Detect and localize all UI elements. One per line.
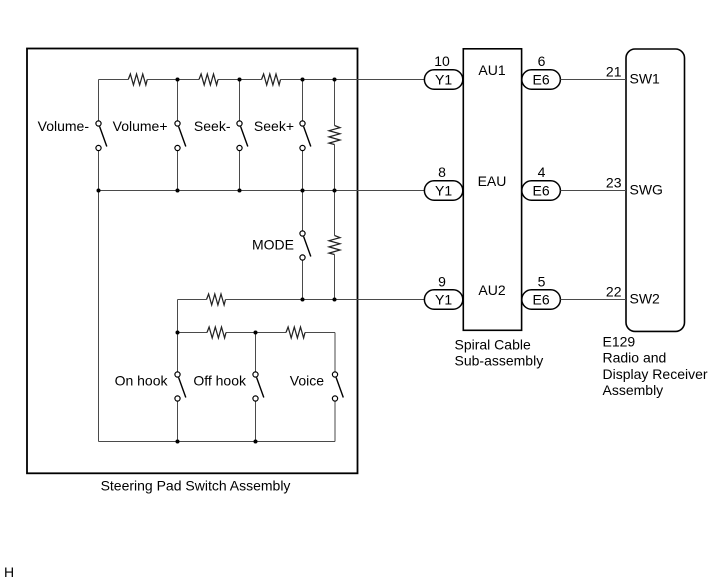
component box: E129 Radio and Display Receiver Assembly (626, 49, 685, 331)
switch Voice (332, 372, 343, 401)
resistor (Volume+ series, row1 middle) (199, 74, 218, 85)
wire vertical x=334.5 lower (ladder resistor branch 2) (334, 191, 336, 300)
wire vertical x=255.5 (Off hook branch) (255, 333, 257, 442)
junction dots line C (176, 440, 258, 444)
svg-text:Assembly: Assembly (603, 382, 664, 398)
svg-text:SW2: SW2 (630, 291, 661, 307)
svg-text:10: 10 (434, 53, 450, 69)
svg-text:AU1: AU1 (478, 62, 505, 78)
connector pill E6 pin 5 (522, 290, 561, 309)
switch Volume- (96, 121, 107, 151)
connector box: Spiral Cable Sub-assembly (463, 49, 521, 331)
svg-text:Radio and: Radio and (603, 350, 667, 366)
wire line B (hook switch feed, y=332.5) (178, 332, 336, 334)
wire row1 net AU1/SW1 (y=79.5) (99, 79, 425, 81)
svg-text:E6: E6 (533, 292, 550, 308)
connector pill Y1 pin 9 (424, 290, 462, 309)
switch Seek+ (300, 121, 311, 151)
svg-text:AU2: AU2 (478, 282, 505, 298)
wire E6 pin5 to E129 pin22 (560, 299, 626, 301)
outer box: Steering Pad Switch Assembly (27, 49, 358, 474)
svg-text:Y1: Y1 (435, 292, 452, 308)
svg-text:H: H (4, 564, 14, 580)
connector pill E6 pin 4 (522, 181, 561, 200)
svg-text:EAU: EAU (478, 173, 507, 189)
resistor (vertical, row2-row3) (329, 236, 340, 255)
svg-text:9: 9 (438, 274, 446, 290)
resistor (Volume- series, row1 left) (128, 74, 147, 85)
switch MODE (300, 231, 311, 260)
svg-text:Seek+: Seek+ (254, 118, 294, 134)
junction dots line B (176, 331, 258, 335)
svg-text:6: 6 (538, 53, 546, 69)
wire E6 pin4 to E129 pin23 (560, 190, 626, 192)
wire row3 net AU2/SW2 (y=299.5) (178, 299, 425, 301)
svg-text:Steering Pad Switch Assembly: Steering Pad Switch Assembly (101, 478, 291, 494)
wire E6 pin6 to E129 pin21 (560, 79, 626, 81)
switch Off hook (253, 372, 264, 401)
svg-text:Y1: Y1 (435, 183, 452, 199)
svg-text:Off hook: Off hook (193, 373, 247, 389)
svg-text:Y1: Y1 (435, 72, 452, 88)
svg-text:21: 21 (606, 64, 622, 80)
svg-text:23: 23 (606, 175, 622, 191)
svg-text:8: 8 (438, 164, 446, 180)
svg-text:SWG: SWG (630, 182, 663, 198)
resistor (Seek- series, row1 right) (262, 74, 281, 85)
svg-text:E6: E6 (533, 72, 550, 88)
connector pill E6 pin 6 (522, 70, 561, 89)
wire line C (switch common return, y=441.5) (99, 441, 336, 443)
wire vertical x=334.5 upper (ladder resistor branch) (334, 80, 336, 191)
resistor (Voice series, line B right) (286, 327, 305, 338)
connector pill Y1 pin 8 (424, 181, 462, 200)
resistor (vertical, row1-row2) (329, 126, 340, 145)
wire vertical x=98 (Volume- branch) (98, 80, 100, 442)
wire vertical x=177.5 (Volume+ branch) (177, 80, 179, 191)
caption: E129 Radio and Display Receiver Assembly (603, 334, 708, 399)
svg-text:Voice: Voice (290, 373, 324, 389)
resistor (row3 series) (207, 294, 226, 305)
svg-text:On hook: On hook (115, 373, 169, 389)
svg-text:22: 22 (606, 284, 622, 300)
connector pill Y1 pin 10 (424, 70, 462, 89)
svg-text:Volume-: Volume- (38, 118, 90, 134)
svg-text:Display Receiver: Display Receiver (603, 366, 708, 382)
svg-text:SW1: SW1 (630, 71, 661, 87)
svg-text:E6: E6 (533, 183, 550, 199)
svg-text:4: 4 (538, 164, 546, 180)
switch On hook (175, 372, 186, 401)
wire vertical x=302.5 (Seek+ branch) (302, 80, 304, 191)
wire vertical x=177.5 (On hook branch) (177, 300, 179, 442)
svg-text:E129: E129 (603, 334, 636, 350)
junction dots row2 (97, 189, 337, 193)
wire vertical x=239.5 (Seek- branch) (239, 80, 241, 191)
resistor (On/Off hook series, line B left) (207, 327, 226, 338)
junction dots row3 (301, 298, 337, 302)
wire vertical x=335.5 (Voice branch) (334, 333, 336, 442)
junction dots row1 (176, 78, 337, 82)
svg-text:Volume+: Volume+ (113, 118, 168, 134)
svg-text:Spiral Cable: Spiral Cable (455, 337, 531, 353)
caption: Spiral Cable Sub-assembly (455, 337, 544, 369)
wire vertical x=302.5 (MODE branch) (302, 191, 304, 300)
switch Seek- (237, 121, 248, 151)
svg-text:Seek-: Seek- (194, 118, 231, 134)
svg-text:Sub-assembly: Sub-assembly (455, 353, 544, 369)
wire row2 net EAU/SWG (y=190.5) (99, 190, 425, 192)
svg-text:5: 5 (538, 274, 546, 290)
switch Volume+ (175, 121, 186, 151)
svg-text:MODE: MODE (252, 237, 294, 253)
